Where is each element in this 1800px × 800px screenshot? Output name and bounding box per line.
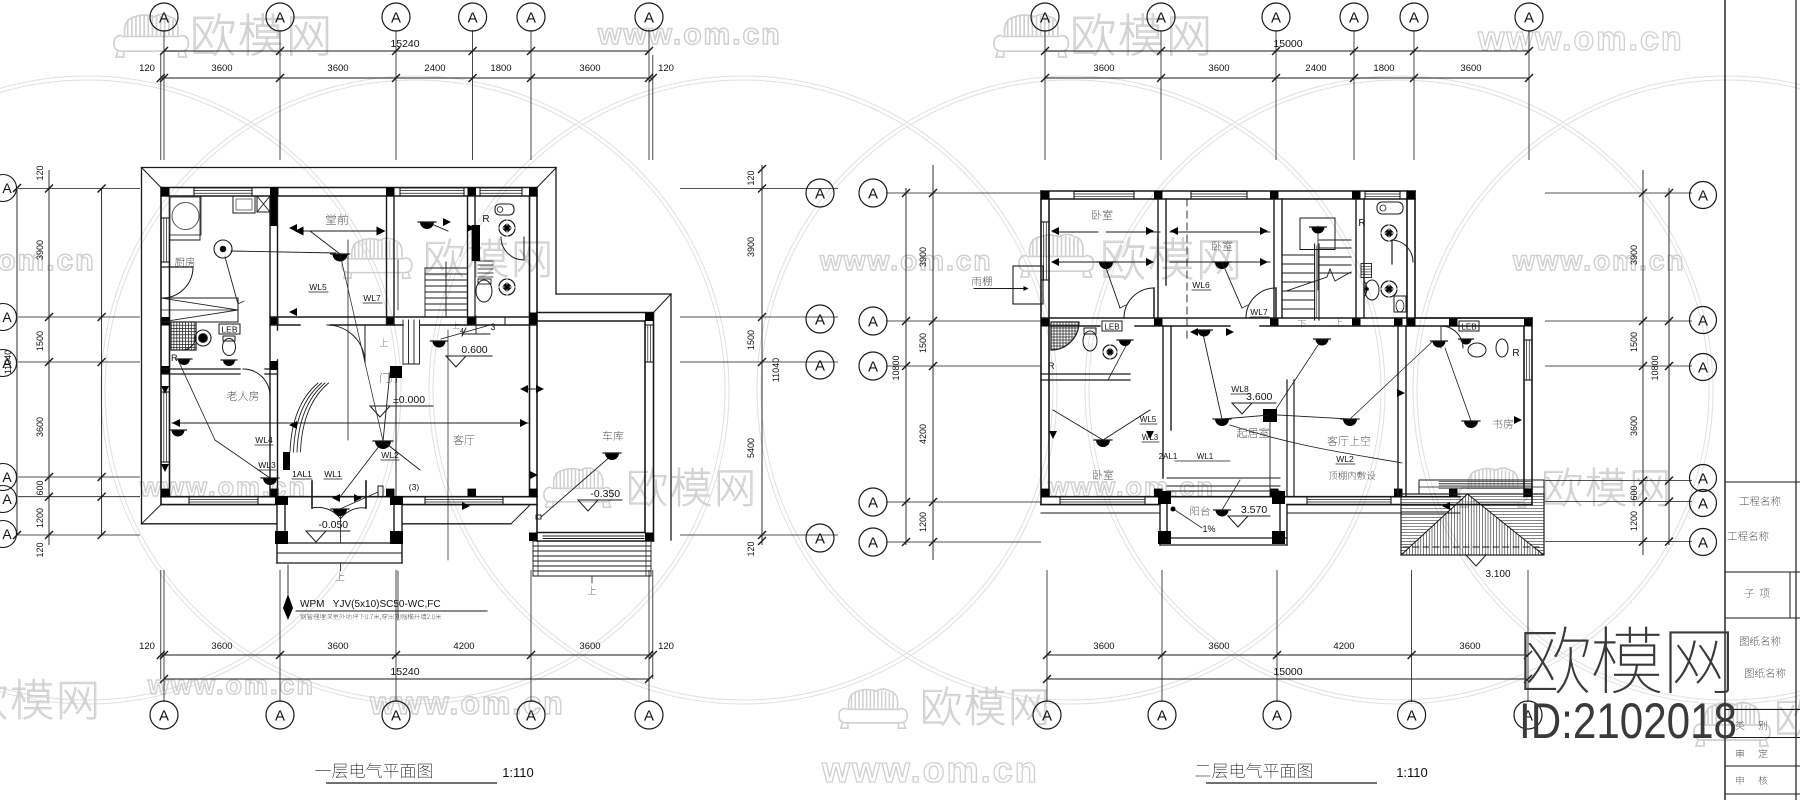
svg-text:3600: 3600 xyxy=(327,641,348,652)
garage opening wire xyxy=(524,388,543,390)
svg-text:ID:2102018: ID:2102018 xyxy=(1519,693,1737,749)
balcony xyxy=(1159,505,1161,545)
kitchen counter line xyxy=(199,196,201,240)
svg-text:A: A xyxy=(868,186,878,203)
left plan outer walls xyxy=(161,187,537,189)
svg-text:A: A xyxy=(1698,188,1708,205)
garage roof outline xyxy=(556,293,671,295)
svg-text:www.om.cn: www.om.cn xyxy=(1512,245,1686,276)
shower door arc xyxy=(182,336,196,350)
roof level 3.100 xyxy=(1466,555,1486,566)
svg-text:A: A xyxy=(391,10,401,27)
right plan outer walls xyxy=(1041,190,1415,192)
interior walls second floor xyxy=(1157,199,1159,318)
svg-text:4200: 4200 xyxy=(918,424,928,444)
LEB panel label xyxy=(219,324,240,334)
svg-text:A: A xyxy=(868,314,878,331)
bath door arc 2f xyxy=(1391,240,1393,264)
svg-text:3600: 3600 xyxy=(1460,63,1481,74)
level 3.600 xyxy=(1232,391,1276,414)
svg-text:A: A xyxy=(2,180,12,196)
svg-text:3600: 3600 xyxy=(579,63,600,74)
svg-text:A: A xyxy=(2,469,12,485)
interior wall V1 xyxy=(270,196,278,226)
garage door steps xyxy=(533,540,651,542)
svg-text:A: A xyxy=(526,708,536,725)
foyer lamp xyxy=(431,341,448,348)
svg-text:3600: 3600 xyxy=(1093,63,1114,74)
kitchen label xyxy=(175,257,194,266)
basement stair hatch xyxy=(161,298,238,322)
svg-text:A: A xyxy=(1157,708,1167,725)
svg-text:A: A xyxy=(1042,708,1052,725)
svg-text:WPM YJV(5x10)SC50-WC,FC: WPM YJV(5x10)SC50-WC,FC xyxy=(300,599,441,610)
svg-text:R: R xyxy=(1048,361,1055,371)
svg-text:3600: 3600 xyxy=(211,63,232,74)
elder room label xyxy=(227,391,258,401)
junction box xyxy=(1263,409,1277,422)
bath second floor xyxy=(1377,202,1403,214)
svg-text:A: A xyxy=(1407,708,1417,725)
svg-text:A: A xyxy=(815,358,825,375)
porch double doors xyxy=(311,481,313,508)
svg-text:WL1: WL1 xyxy=(1197,452,1214,461)
bedroom 2 xyxy=(1212,241,1232,251)
svg-text:WL4: WL4 xyxy=(255,435,273,445)
top dim lines xyxy=(161,77,653,79)
svg-text:WL7: WL7 xyxy=(363,293,381,303)
kitchen door arc xyxy=(162,266,194,268)
svg-text:120: 120 xyxy=(139,641,155,652)
svg-text:1200: 1200 xyxy=(35,508,45,528)
left plan eave outline xyxy=(142,167,557,169)
svg-text:(3): (3) xyxy=(409,482,420,492)
svg-text:600: 600 xyxy=(35,480,45,495)
WPM feeder xyxy=(287,565,289,594)
svg-text:www.om.cn: www.om.cn xyxy=(0,244,96,277)
roof top louver band xyxy=(1419,480,1544,494)
flue shaft xyxy=(257,196,270,212)
windows second floor xyxy=(1074,191,1134,193)
elder room door arc xyxy=(243,369,270,396)
bath bottom wall H2 xyxy=(161,368,240,370)
bedroom door arcs 2f xyxy=(1153,288,1155,318)
svg-text:3600: 3600 xyxy=(579,641,600,652)
svg-text:15240: 15240 xyxy=(390,38,419,50)
wash basin xyxy=(476,280,492,302)
svg-text:A: A xyxy=(644,10,654,27)
kitchen sink xyxy=(233,196,255,213)
right plan left side chain xyxy=(932,165,934,560)
vent shaft xyxy=(1361,264,1372,278)
right plan right side chain xyxy=(1642,170,1644,555)
left bath second floor xyxy=(1051,322,1079,350)
front hall label 堂前 xyxy=(326,214,348,225)
svg-text:3600: 3600 xyxy=(1208,63,1229,74)
svg-text:120: 120 xyxy=(139,63,155,74)
svg-text:1500: 1500 xyxy=(35,331,45,351)
svg-text:www.om.cn: www.om.cn xyxy=(1477,20,1684,58)
svg-text:A: A xyxy=(1698,360,1708,377)
svg-text:LEB: LEB xyxy=(1104,323,1119,332)
svg-text:2400: 2400 xyxy=(1305,63,1326,74)
bathtub xyxy=(495,204,514,215)
columns second floor xyxy=(1041,191,1050,200)
svg-text:-0.050: -0.050 xyxy=(318,519,348,531)
svg-text:A: A xyxy=(526,10,536,27)
svg-text:3.600: 3.600 xyxy=(1246,391,1272,403)
svg-text:R: R xyxy=(482,214,489,225)
svg-text:3600: 3600 xyxy=(1093,641,1114,652)
svg-text:10800: 10800 xyxy=(891,355,901,380)
svg-text:3900: 3900 xyxy=(918,247,928,267)
svg-text:A: A xyxy=(815,531,825,548)
wires xyxy=(172,422,528,424)
canopy 雨棚 xyxy=(1013,266,1043,304)
right plan top chain xyxy=(1031,3,1059,31)
svg-text:A: A xyxy=(275,10,285,27)
svg-text:A: A xyxy=(1698,535,1708,552)
svg-text:11040: 11040 xyxy=(771,358,781,382)
plan titles xyxy=(315,763,432,779)
svg-text:3.570: 3.570 xyxy=(1241,504,1267,516)
stairs second floor xyxy=(1300,218,1335,250)
svg-text:R: R xyxy=(1358,218,1365,229)
svg-text:1500: 1500 xyxy=(746,330,756,350)
svg-text:A: A xyxy=(1524,10,1534,27)
svg-text:1:110: 1:110 xyxy=(1396,765,1428,780)
svg-text:A: A xyxy=(868,535,878,552)
bedroom 1 xyxy=(1092,210,1112,220)
left plan top axis circles xyxy=(150,3,178,31)
study xyxy=(1493,419,1513,429)
stairs first floor xyxy=(425,267,467,269)
wire from living hub xyxy=(1230,425,1402,463)
svg-text:A: A xyxy=(1272,708,1282,725)
bedroom bottom xyxy=(1093,470,1113,480)
svg-text:3600: 3600 xyxy=(211,641,232,652)
svg-text:120: 120 xyxy=(658,641,674,652)
svg-text:5400: 5400 xyxy=(746,438,756,458)
entrance porch xyxy=(276,497,278,563)
svg-text:A: A xyxy=(2,526,12,542)
svg-text:15240: 15240 xyxy=(390,666,419,678)
stair arrow xyxy=(452,321,459,328)
svg-text:A: A xyxy=(1156,10,1166,27)
foyer entry steps xyxy=(402,320,404,364)
svg-text:A: A xyxy=(1409,10,1419,27)
svg-text:3600: 3600 xyxy=(1459,641,1480,652)
left plan right side chain xyxy=(761,165,763,545)
svg-text:A: A xyxy=(1040,10,1050,27)
svg-text:3600: 3600 xyxy=(1208,641,1229,652)
exhaust fan xyxy=(195,330,211,346)
level ±0.000 xyxy=(370,394,433,417)
svg-text:A: A xyxy=(391,708,401,725)
svg-text:WL5: WL5 xyxy=(309,282,327,292)
svg-text:A: A xyxy=(815,186,825,203)
svg-text:R: R xyxy=(1512,348,1519,359)
svg-text:A: A xyxy=(159,708,169,725)
shower hatched square xyxy=(171,322,196,350)
svg-text:120: 120 xyxy=(658,63,674,74)
svg-text:120: 120 xyxy=(746,170,756,185)
living room 2f xyxy=(1237,428,1269,438)
svg-text:1200: 1200 xyxy=(918,512,928,532)
small stair turn treads xyxy=(478,260,493,262)
basin semicircle xyxy=(1364,281,1367,297)
svg-text:LEB: LEB xyxy=(221,325,237,335)
garage door sill band xyxy=(543,535,644,537)
svg-text:3600: 3600 xyxy=(1629,416,1639,436)
svg-text:A: A xyxy=(868,495,878,512)
level 0.600 xyxy=(446,344,492,367)
svg-text:A: A xyxy=(1698,471,1708,488)
svg-text:A: A xyxy=(2,309,12,325)
svg-text:1500: 1500 xyxy=(918,333,928,353)
hall door arc xyxy=(327,325,365,363)
svg-text:1AL1: 1AL1 xyxy=(292,469,312,479)
svg-text:A: A xyxy=(815,312,825,329)
study bath fixtures xyxy=(1459,321,1479,331)
svg-text:LEB: LEB xyxy=(1461,323,1476,332)
svg-text:www.om.cn: www.om.cn xyxy=(147,670,315,700)
kitchen ceiling rose xyxy=(214,240,232,258)
eave line below xyxy=(1041,512,1160,514)
stair break line xyxy=(1286,269,1351,291)
svg-text:2AL1: 2AL1 xyxy=(1159,452,1178,461)
corridor lamps xyxy=(1196,330,1213,337)
svg-text:3: 3 xyxy=(490,322,495,332)
svg-text:0.600: 0.600 xyxy=(461,344,487,356)
left plan left side chain xyxy=(48,170,50,545)
big logo 欧模网 xyxy=(1524,627,1729,694)
svg-text:R: R xyxy=(171,353,178,363)
svg-text:A: A xyxy=(1349,10,1359,27)
svg-text:4200: 4200 xyxy=(453,641,474,652)
door jamb marks xyxy=(289,224,297,232)
svg-text:3900: 3900 xyxy=(35,240,45,260)
distribution panel 1AL1 xyxy=(283,452,290,470)
svg-text:A: A xyxy=(644,708,654,725)
garage walls xyxy=(537,312,654,314)
svg-text:www.om.cn: www.om.cn xyxy=(597,18,782,51)
interior wall V3 stairwell xyxy=(467,196,469,325)
right plan bottom chain xyxy=(1046,570,1048,702)
svg-text:A: A xyxy=(868,359,878,376)
svg-text:1500: 1500 xyxy=(1629,332,1639,352)
svg-text:www.om.cn: www.om.cn xyxy=(821,749,1039,790)
svg-text:±0.000: ±0.000 xyxy=(393,394,425,406)
watermark big circles xyxy=(0,76,1800,704)
wires second floor xyxy=(1053,261,1152,263)
svg-text:A: A xyxy=(1698,313,1708,330)
svg-text:3900: 3900 xyxy=(1629,245,1639,265)
svg-text:A: A xyxy=(159,10,169,27)
svg-text:WL5: WL5 xyxy=(1140,415,1157,424)
svg-text:15000: 15000 xyxy=(1273,666,1302,678)
svg-text:2400: 2400 xyxy=(424,63,445,74)
foyer label 门厅 xyxy=(380,373,400,383)
living room label 客厅 xyxy=(453,435,474,445)
svg-text:-0.350: -0.350 xyxy=(590,488,620,500)
interior wall V2 xyxy=(386,196,388,325)
bath door arc xyxy=(501,237,524,260)
level -0.050 xyxy=(306,519,350,542)
svg-text:120: 120 xyxy=(35,165,45,180)
left plan bottom chain xyxy=(163,570,165,702)
svg-text:1200: 1200 xyxy=(1629,511,1639,531)
hall arrow wire xyxy=(296,230,384,232)
interior mid wall H1 xyxy=(270,316,537,318)
svg-text:3.100: 3.100 xyxy=(1485,569,1510,580)
svg-text:1800: 1800 xyxy=(1373,63,1394,74)
svg-text:A: A xyxy=(1698,496,1708,513)
door marks second floor xyxy=(1051,227,1059,235)
svg-text:1800: 1800 xyxy=(490,63,511,74)
svg-text:10800: 10800 xyxy=(1650,355,1660,380)
windows first floor xyxy=(194,187,252,189)
svg-text:3600: 3600 xyxy=(327,63,348,74)
svg-text:A: A xyxy=(1271,10,1281,27)
kitchen range circle xyxy=(172,203,199,230)
svg-text:1:110: 1:110 xyxy=(502,765,534,780)
svg-text:120: 120 xyxy=(35,542,45,557)
garage window right wall xyxy=(644,325,646,362)
svg-text:3600: 3600 xyxy=(35,417,45,437)
svg-text:15000: 15000 xyxy=(1273,38,1302,50)
svg-text:A: A xyxy=(275,708,285,725)
garage label 车库 xyxy=(603,431,624,441)
svg-text:4200: 4200 xyxy=(1333,641,1354,652)
svg-text:WL3: WL3 xyxy=(258,460,276,470)
level -0.350 xyxy=(578,488,622,511)
toilet xyxy=(223,339,236,356)
wire bundle from panel xyxy=(290,383,318,452)
svg-text:WL6: WL6 xyxy=(1192,280,1210,290)
svg-text:WL1: WL1 xyxy=(324,469,342,479)
svg-text:WL3: WL3 xyxy=(1142,433,1159,442)
kitchen counter square xyxy=(170,197,201,235)
svg-text:1%: 1% xyxy=(1202,524,1215,534)
svg-text:WL2: WL2 xyxy=(1336,454,1354,464)
svg-text:A: A xyxy=(2,491,12,507)
roof dashed line xyxy=(1403,546,1542,548)
svg-text:120: 120 xyxy=(746,541,756,556)
svg-text:A: A xyxy=(468,10,478,27)
svg-text:600: 600 xyxy=(1629,485,1639,500)
title block xyxy=(1724,0,1726,800)
svg-text:A: A xyxy=(2,355,12,371)
structural columns xyxy=(161,188,170,197)
svg-text:WL7: WL7 xyxy=(1250,307,1268,317)
svg-text:3900: 3900 xyxy=(746,237,756,257)
